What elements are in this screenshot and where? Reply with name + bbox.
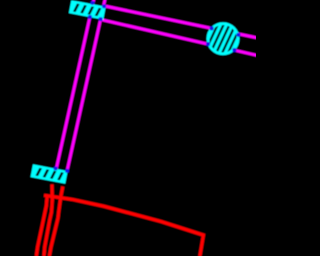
grip dot G (bottom line enters circle)	[206, 42, 210, 46]
column: top hatched rectangle	[70, 1, 104, 18]
wire: red line 2 (middle vertical)	[44, 184, 52, 256]
wire: red line 3 (right vertical)	[49, 187, 63, 256]
grip dot H (bottom line exits circle)	[232, 48, 236, 52]
wire: magenta wall line horizontal-top	[104, 6, 258, 38]
grip dot J (right vert line bottom end)	[65, 169, 69, 173]
grip dot D (horiz top start)	[102, 4, 106, 8]
wire: red boundary polyline (horizontal + corner down)	[44, 195, 203, 256]
wire: magenta wall line vertical-right	[67, 0, 105, 171]
grip dot E (top line enters circle)	[210, 26, 214, 30]
grip dot F (top line exits circle)	[236, 33, 240, 37]
column: round hatched circle	[208, 24, 238, 54]
grip dot B (left vert line at rect bottom edge)	[88, 15, 92, 19]
grip dot I (left vert line bottom end)	[54, 166, 58, 170]
wire: red line 1 (leftmost vertical)	[36, 196, 47, 256]
wire: magenta wall line vertical-left	[56, 0, 94, 169]
wire: magenta wall line horizontal-bottom	[102, 20, 259, 56]
column: bottom hatched rectangle	[32, 166, 66, 183]
grip dot C (wall corner, right vert / horiz bottom start)	[99, 17, 103, 21]
grip dot A (left vert line near top)	[91, 1, 95, 5]
